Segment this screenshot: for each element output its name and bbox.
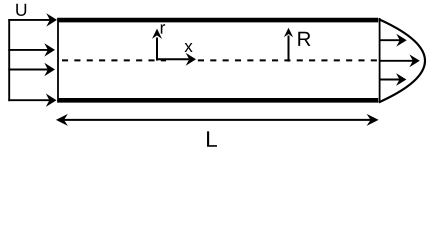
wire inlet profile spine (8, 19, 10, 101)
wire pipe inlet line (57, 18, 59, 103)
dimension line L (double headed) (56, 114, 379, 126)
label r (161, 24, 165, 33)
exit parabolic profile curve (379, 19, 425, 102)
axis r arrow (152, 29, 162, 61)
inlet velocity arrow 1 (8, 13, 57, 26)
exit velocity arrow center (380, 54, 420, 67)
exit velocity arrow upper (380, 34, 407, 47)
exit velocity arrow lower (380, 73, 407, 86)
wire pipe exit line (379, 18, 381, 103)
centerline (dashed axis) (62, 59, 166, 61)
label U (16, 4, 26, 16)
centerline (dashed axis, right of x arrow) (198, 59, 377, 61)
label L (207, 131, 217, 146)
pipe top wall (58, 18, 378, 23)
inlet velocity arrow 3 (8, 63, 55, 76)
inlet velocity arrow 2 (8, 43, 55, 56)
axis x arrow (157, 53, 196, 66)
label R (298, 32, 310, 46)
inlet velocity arrow 4 (8, 94, 56, 107)
radius R arrow (284, 28, 293, 62)
pipe bottom wall (58, 98, 378, 103)
label x (184, 43, 192, 52)
